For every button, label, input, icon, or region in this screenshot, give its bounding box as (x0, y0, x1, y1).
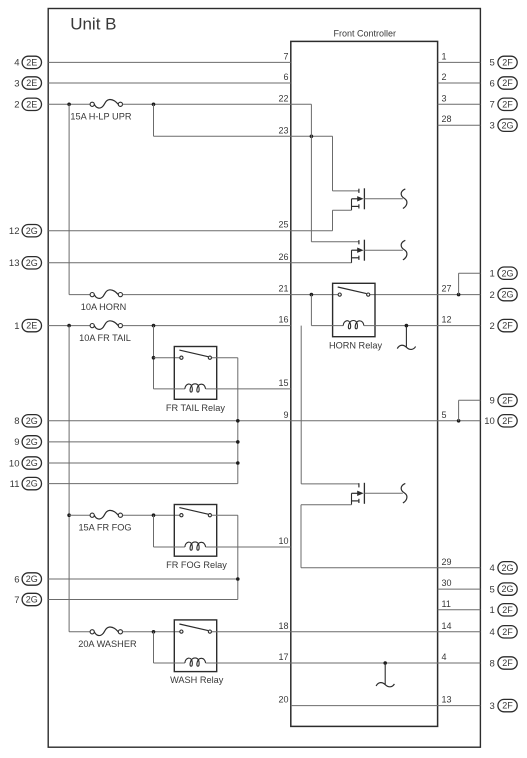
wire 12-2G to pin 25 (48, 230, 332, 232)
svg-text:2F: 2F (502, 605, 513, 615)
connector 13 2G (left) (9, 257, 42, 270)
svg-text:12: 12 (9, 226, 20, 237)
wire fog fuse to contact (123, 514, 180, 516)
wire 11-2G (48, 483, 238, 485)
svg-text:15A FR FOG: 15A FR FOG (78, 523, 131, 533)
svg-text:5: 5 (490, 58, 495, 69)
wire pin16 riser down (300, 326, 302, 484)
svg-text:10: 10 (484, 416, 495, 427)
wire stub pin 3 to 7-2F (438, 103, 481, 105)
connector 2 2E (left) (14, 98, 41, 111)
wire 9-2F stub horiz (459, 399, 481, 401)
svg-text:20: 20 (278, 695, 288, 705)
svg-text:9: 9 (14, 437, 19, 448)
svg-text:2G: 2G (501, 120, 513, 130)
svg-text:5: 5 (442, 410, 447, 420)
connector 2 2F (right) (490, 319, 518, 332)
svg-text:2G: 2G (26, 574, 38, 584)
wire 1-2G stub horiz (459, 272, 481, 274)
Unit B enclosure box (48, 9, 480, 748)
svg-text:2E: 2E (26, 321, 37, 331)
svg-text:2F: 2F (502, 416, 513, 426)
svg-text:2G: 2G (501, 584, 513, 594)
svg-text:18: 18 (278, 621, 288, 631)
svg-text:2F: 2F (502, 627, 513, 637)
fuse 20A WASHER (78, 627, 137, 649)
svg-text:23: 23 (278, 125, 288, 135)
svg-text:3: 3 (490, 121, 495, 132)
svg-text:5: 5 (490, 584, 495, 595)
wire fog contact out (212, 514, 238, 516)
junction bus fog (67, 513, 71, 517)
junction 9-2F stub (457, 419, 461, 423)
fuse 15A H-LP UPR (70, 99, 131, 121)
svg-text:FR FOG Relay: FR FOG Relay (166, 560, 227, 570)
connector 1 2E (left) (14, 319, 41, 332)
connector 1 2G (right) (490, 267, 518, 280)
relay box FR TAIL (174, 347, 216, 400)
svg-text:10: 10 (278, 536, 288, 546)
wire fr tail branch down (153, 326, 155, 389)
svg-text:2E: 2E (26, 58, 37, 68)
connector 3 2F (right) (490, 699, 518, 712)
svg-text:13: 13 (442, 695, 452, 705)
wire 23 to gate riser (154, 135, 333, 137)
connector 6 2G (left) (14, 573, 41, 586)
svg-text:10A FR TAIL: 10A FR TAIL (79, 333, 131, 343)
svg-text:2G: 2G (26, 437, 38, 447)
Front Controller box (291, 41, 438, 726)
svg-text:2G: 2G (26, 595, 38, 605)
connector 3 2E (left) (14, 77, 41, 90)
wire gate2 horizontal (311, 241, 359, 243)
connector 1 2F (right) (490, 604, 518, 617)
svg-text:2F: 2F (502, 58, 513, 68)
ground symbol 1 (397, 326, 415, 350)
wire pin22 riser down (310, 104, 312, 241)
svg-text:2G: 2G (26, 258, 38, 268)
svg-text:30: 30 (442, 578, 452, 588)
svg-text:4: 4 (442, 652, 447, 662)
svg-text:7: 7 (490, 100, 495, 111)
load continuation symbol 2 (401, 240, 407, 260)
svg-text:2G: 2G (26, 479, 38, 489)
junction wire23 / pin22 riser (310, 135, 314, 139)
svg-text:2G: 2G (26, 416, 38, 426)
svg-text:3: 3 (442, 93, 447, 103)
fuse 10A FR TAIL (79, 321, 131, 343)
svg-text:12: 12 (442, 315, 452, 325)
wire 12 to 2-2F (364, 325, 481, 327)
svg-text:2: 2 (14, 100, 19, 111)
svg-text:Unit B: Unit B (70, 15, 116, 34)
svg-text:27: 27 (442, 284, 452, 294)
svg-text:29: 29 (442, 557, 452, 567)
wire 10 (coil) to controller (206, 546, 291, 548)
svg-text:22: 22 (278, 93, 288, 103)
wire fr tail contact out (212, 357, 238, 359)
transistor Q2 (H-LP lower FET) (352, 240, 403, 263)
svg-text:11: 11 (10, 479, 20, 490)
svg-text:25: 25 (278, 220, 288, 230)
wire 4-2E to pin 7 (48, 61, 291, 63)
wire stub pin 30 to 5-2G (438, 588, 481, 590)
junction bus2 top (67, 324, 71, 328)
junction bus top (67, 103, 71, 107)
svg-text:1: 1 (490, 605, 495, 616)
junction fr tail contact branch (152, 356, 156, 360)
relay coil FR TAIL (185, 384, 206, 392)
wire wash coil feed horiz (154, 662, 185, 664)
svg-text:6: 6 (14, 574, 19, 585)
svg-text:13: 13 (9, 258, 20, 269)
svg-text:8: 8 (490, 658, 495, 669)
wire stub pin 2 to 6-2F (438, 82, 481, 84)
svg-text:2F: 2F (502, 658, 513, 668)
connector 12 2G (left) (9, 225, 42, 238)
wire fr tail contact feed (154, 357, 180, 359)
connector 3 2G (right) (490, 119, 518, 132)
svg-text:2F: 2F (502, 99, 513, 109)
wire washer fuse to contact (123, 631, 180, 633)
relay contacts FR FOG (179, 508, 211, 517)
wire 7-2G (48, 599, 238, 601)
svg-text:2F: 2F (502, 78, 513, 88)
svg-text:HORN Relay: HORN Relay (329, 340, 382, 350)
wire feed bus upper (68, 104, 70, 294)
wire 18 through to pin 14 and 4-2F (212, 631, 481, 633)
wire wash coil feed down (153, 632, 155, 663)
junction horn coil branch (310, 293, 314, 297)
wire 15 to controller (206, 388, 291, 390)
svg-text:6: 6 (490, 78, 495, 89)
wire 27 to 2-2G (369, 294, 480, 296)
svg-text:26: 26 (278, 252, 288, 262)
svg-text:15A H-LP UPR: 15A H-LP UPR (70, 112, 131, 122)
svg-text:2G: 2G (501, 268, 513, 278)
junction fuse out H-LP (152, 103, 156, 107)
svg-text:2F: 2F (502, 701, 513, 711)
relay box FR FOG (174, 505, 216, 557)
relay contacts HORN (338, 287, 370, 296)
svg-text:1: 1 (490, 269, 495, 280)
wire horn coil feed horiz (311, 325, 343, 327)
relay coil FR FOG (185, 542, 206, 550)
junction 6-2G (236, 577, 240, 581)
fuse 10A HORN (81, 290, 126, 312)
connector 5 2G (right) (490, 583, 518, 596)
wire 3-2E to pin 6 (48, 82, 291, 84)
wire horn fuse to pin 21 (123, 294, 338, 296)
wire fr tail fuse to pin 16 (123, 325, 291, 327)
junction 1-2G stub (457, 293, 461, 297)
svg-text:10: 10 (9, 458, 20, 469)
wire 1-2E feed segment (48, 325, 90, 327)
wire 13-2G to pin 26 (48, 262, 351, 264)
junction 9-2G (236, 440, 240, 444)
wire 8-2G through pin 9 to pin 5 (48, 420, 480, 422)
connector 5 2F (right) (490, 56, 518, 68)
wire Q1 source step down (332, 210, 334, 231)
wire fog coil feed down (153, 515, 155, 547)
svg-text:9: 9 (283, 410, 288, 420)
wire 10-2G (48, 462, 238, 464)
connector 9 2G (left) (14, 436, 41, 449)
connector 9 2F (right) (490, 394, 518, 407)
wire feed bus lower (68, 326, 70, 632)
svg-text:7: 7 (283, 51, 288, 61)
svg-text:2G: 2G (26, 458, 38, 468)
relay coil WASH (185, 658, 206, 666)
relay box HORN (333, 283, 375, 336)
svg-text:15: 15 (278, 378, 288, 388)
wire 29 to 4-2G (301, 567, 480, 569)
svg-text:WASH Relay: WASH Relay (170, 675, 224, 685)
load continuation symbol 3 (401, 483, 407, 503)
svg-text:7: 7 (14, 595, 19, 606)
connector 4 2F (right) (490, 626, 518, 639)
transistor Q3 (FR FOG FET) (352, 483, 403, 505)
svg-text:28: 28 (442, 114, 452, 124)
svg-text:2E: 2E (26, 99, 37, 109)
junction 10-2G (236, 461, 240, 465)
connector 8 2G (left) (14, 415, 41, 428)
wire gate1 riser (332, 136, 334, 191)
svg-text:2: 2 (490, 321, 495, 332)
svg-text:2: 2 (490, 290, 495, 301)
junction ground 2 (383, 661, 387, 665)
svg-text:2G: 2G (26, 226, 38, 236)
wire 2-2E feed segment (48, 103, 90, 105)
wire 1-2G stub riser (458, 273, 460, 294)
svg-text:2F: 2F (502, 321, 513, 331)
wire fog feed segment (69, 514, 90, 516)
junction ground 1 (405, 324, 409, 328)
svg-text:10A HORN: 10A HORN (81, 302, 126, 312)
svg-text:3: 3 (14, 78, 19, 89)
svg-text:14: 14 (442, 621, 452, 631)
svg-text:6: 6 (283, 72, 288, 82)
wire stub pin 1 to 5-2F (438, 61, 481, 63)
connector 2 2G (right) (490, 288, 518, 301)
transistor Q1 (H-LP relay FET) (352, 188, 403, 210)
wire gate3 horizontal (301, 483, 359, 485)
svg-text:1: 1 (14, 321, 19, 332)
wire fog out riser (237, 515, 239, 599)
wire Q1 source step horiz (333, 209, 352, 211)
svg-text:2F: 2F (502, 395, 513, 405)
connector 10 2F (right) (484, 415, 517, 428)
wire Q3 source step horiz (301, 504, 352, 506)
wire bus to washer fuse (69, 631, 90, 633)
svg-text:17: 17 (278, 652, 288, 662)
connector 4 2E (left) (14, 56, 41, 68)
svg-text:3: 3 (490, 701, 495, 712)
svg-text:2E: 2E (26, 78, 37, 88)
ground symbol 2 (376, 663, 394, 687)
wire 6-2G (48, 578, 238, 580)
load continuation symbol 1 (401, 189, 407, 209)
junction fog coil branch (152, 513, 156, 517)
wire fr tail coil feed (154, 388, 185, 390)
svg-text:4: 4 (490, 627, 495, 638)
relay contacts WASH (179, 624, 211, 633)
fuse 15A FR FOG (78, 510, 131, 532)
connector 8 2F (right) (490, 657, 518, 670)
relay box WASH (174, 620, 216, 672)
wire step down to 23 (153, 104, 155, 136)
relay coil HORN (343, 320, 364, 328)
svg-text:2G: 2G (501, 290, 513, 300)
junction fr tail fuse out (152, 324, 156, 328)
wire fog coil feed horiz (154, 546, 185, 548)
wire stub pin 11 to 1-2F (438, 609, 481, 611)
svg-text:4: 4 (14, 58, 19, 69)
wire 17 through pin 4 to 8-2F (206, 662, 481, 664)
svg-text:Front Controller: Front Controller (334, 29, 397, 39)
wire fuse to pin 22 (123, 103, 312, 105)
connector 7 2G (left) (14, 593, 41, 606)
junction 8-2G riser (236, 419, 240, 423)
svg-text:21: 21 (278, 284, 288, 294)
wire 20 through pin 13 to 3-2F (291, 705, 481, 707)
wire horn coil feed down (310, 295, 312, 326)
connector 7 2F (right) (490, 98, 518, 111)
wire Q3 source step down (300, 505, 302, 568)
connector 6 2F (right) (490, 77, 518, 90)
wire 9-2F stub riser (458, 400, 460, 421)
relay contacts FR TAIL (179, 350, 211, 359)
wire gate1 horizontal (333, 190, 359, 192)
svg-text:16: 16 (278, 315, 288, 325)
connector 10 2G (left) (9, 457, 42, 470)
svg-text:8: 8 (14, 416, 19, 427)
svg-text:20A WASHER: 20A WASHER (78, 639, 137, 649)
wire 9-2G (48, 441, 238, 443)
connector 4 2G (right) (490, 562, 518, 575)
junction wash coil branch (152, 630, 156, 634)
svg-text:9: 9 (490, 396, 495, 407)
wire stub pin 28 to 3-2G (438, 124, 481, 126)
wire fr tail out riser (237, 358, 239, 484)
wire bus to horn fuse (69, 294, 90, 296)
svg-text:2: 2 (442, 72, 447, 82)
svg-text:11: 11 (442, 599, 451, 609)
svg-text:2G: 2G (501, 563, 513, 573)
connector 11 2G (left) (10, 477, 42, 490)
svg-text:1: 1 (442, 51, 447, 61)
svg-text:FR TAIL Relay: FR TAIL Relay (166, 403, 225, 413)
svg-text:4: 4 (490, 563, 495, 574)
